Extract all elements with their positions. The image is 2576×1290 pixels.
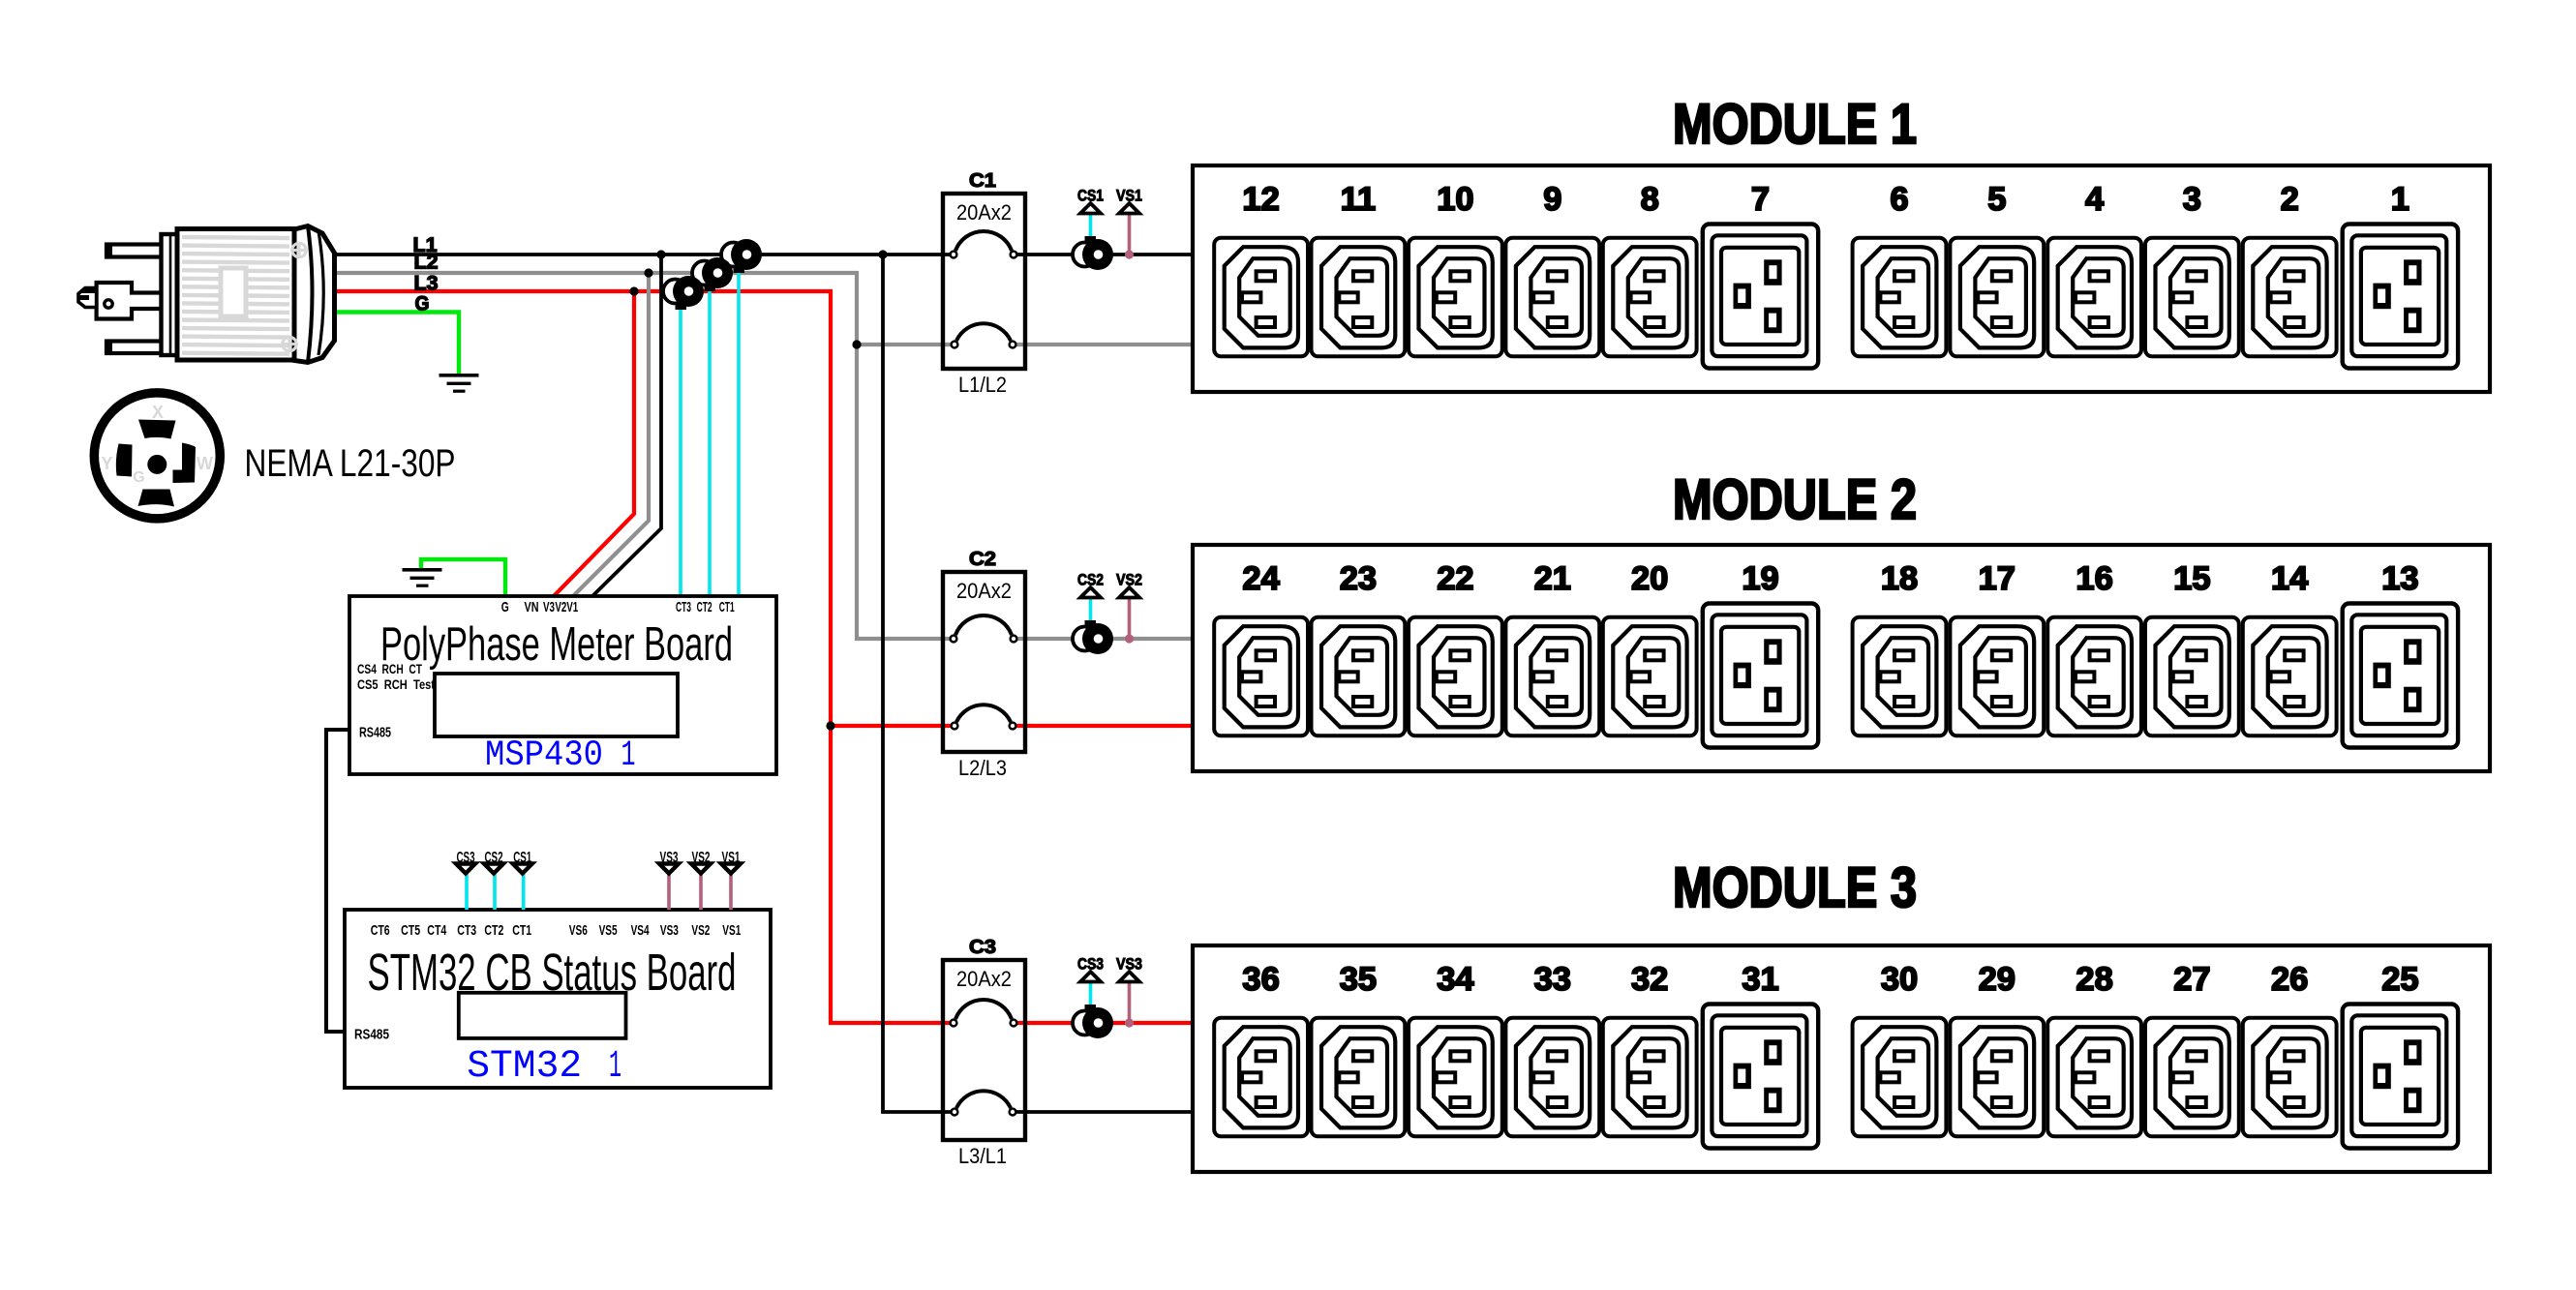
outlet 32 C13 (1603, 1018, 1697, 1137)
outlet 33 C13 (1505, 1018, 1599, 1137)
svg-text:24: 24 (1242, 560, 1279, 597)
CS2 triangle at STM32 (484, 864, 503, 874)
svg-text:10: 10 (1437, 181, 1473, 218)
outlet 16 C13 (2047, 617, 2141, 736)
svg-text:CT5: CT5 (401, 922, 420, 939)
svg-text:PolyPhase Meter Board: PolyPhase Meter Board (380, 618, 733, 671)
outlet 30 C13 (1853, 1018, 1947, 1137)
svg-text:26: 26 (2271, 961, 2308, 998)
svg-text:Y: Y (101, 454, 112, 473)
outlet 15 C13 (2145, 617, 2239, 736)
svg-text:RS485: RS485 (359, 725, 391, 741)
svg-text:CT3: CT3 (676, 599, 691, 615)
svg-text:C3: C3 (969, 936, 996, 958)
svg-text:20Ax2: 20Ax2 (956, 967, 1012, 991)
svg-text:CS1: CS1 (513, 850, 531, 866)
svg-text:VS3: VS3 (660, 850, 679, 866)
VS1 triangle at STM32 (721, 864, 741, 874)
VS1 tap (1128, 214, 1132, 255)
junction dot L1/module3 drop (878, 250, 887, 258)
svg-text:27: 27 (2173, 961, 2210, 998)
svg-text:CT2: CT2 (484, 922, 503, 939)
svg-text:35: 35 (1340, 961, 1377, 998)
svg-text:MODULE 2: MODULE 2 (1673, 468, 1917, 531)
svg-text:VS2: VS2 (692, 850, 711, 866)
svg-text:MODULE 1: MODULE 1 (1673, 93, 1917, 156)
CT1 toroid on L1 (721, 239, 762, 273)
outlet 31 C19 (1703, 1005, 1818, 1149)
svg-text:VS6: VS6 (569, 922, 588, 939)
VS3 tap (1128, 982, 1132, 1024)
svg-text:CS5 RCH Test: CS5 RCH Test (357, 676, 435, 692)
svg-text:L1/L2: L1/L2 (958, 373, 1007, 397)
breaker C3 bottom arc (956, 1091, 1011, 1108)
svg-text:34: 34 (1437, 961, 1473, 998)
svg-text:7: 7 (1751, 181, 1770, 218)
svg-text:CT4: CT4 (427, 922, 446, 939)
wire L2 gray from C2 to module 2 (1013, 637, 1193, 641)
svg-text:25: 25 (2381, 961, 2418, 998)
outlet 7 C19 (1703, 225, 1818, 369)
VS1 triangle (1119, 203, 1139, 214)
svg-text:G: G (415, 292, 430, 315)
VS3 triangle (1119, 972, 1139, 982)
plug NEMA L21-30P body (78, 234, 179, 355)
MODULE 2 box (1193, 545, 2490, 771)
breaker C2 box (943, 572, 1025, 752)
svg-text:CS3: CS3 (457, 850, 475, 866)
CS3 toroid sensor (1089, 982, 1093, 1008)
svg-text:3: 3 (2183, 181, 2201, 218)
outlet 12 C13 (1214, 238, 1308, 356)
svg-text:CT1: CT1 (719, 599, 735, 615)
svg-text:W: W (197, 454, 213, 473)
outlet 18 C13 (1853, 617, 1947, 736)
CS2 toroid sensor (1089, 598, 1093, 624)
svg-text:C1: C1 (969, 169, 996, 192)
svg-text:20Ax2: 20Ax2 (956, 579, 1012, 603)
svg-text:MODULE 3: MODULE 3 (1673, 856, 1917, 919)
outlet 11 C13 (1312, 238, 1406, 356)
svg-text:CT3: CT3 (457, 922, 476, 939)
svg-text:VS5: VS5 (599, 922, 618, 939)
svg-text:VS1: VS1 (1116, 187, 1142, 205)
breaker C1 top arc (955, 231, 1012, 251)
outlet 6 C13 (1853, 238, 1947, 356)
svg-text:31: 31 (1742, 961, 1778, 998)
outlet 20 C13 (1603, 617, 1697, 736)
svg-text:CT2: CT2 (697, 599, 712, 615)
svg-text:17: 17 (1979, 560, 2015, 597)
wire G green meter board ground (421, 559, 505, 596)
svg-text:1: 1 (2391, 181, 2409, 218)
svg-text:33: 33 (1534, 961, 1571, 998)
outlet 1 C19 (2343, 225, 2458, 369)
wire CT2 cyan to meter board (708, 290, 712, 596)
junction dot L3 at C2 feed (826, 721, 834, 730)
outlet 36 C13 (1214, 1018, 1308, 1137)
svg-text:32: 32 (1631, 961, 1668, 998)
svg-text:G: G (501, 599, 509, 615)
svg-text:STM32: STM32 (467, 1045, 582, 1089)
svg-text:RS485: RS485 (354, 1027, 389, 1043)
svg-text:NEMA L21-30P: NEMA L21-30P (245, 442, 456, 485)
breaker C2 top arc (955, 615, 1012, 635)
svg-text:36: 36 (1242, 961, 1279, 998)
outlet 22 C13 (1409, 617, 1502, 736)
outlet 23 C13 (1312, 617, 1406, 736)
junction dot L2/V2 (644, 268, 652, 277)
wire V2 gray sense drop to meter board (573, 273, 649, 596)
junction dot L2 at C1 feed (852, 340, 861, 348)
CS1 toroid sensor (1089, 214, 1093, 240)
breaker C1 bottom arc (956, 323, 1011, 341)
wire L1 black from plug to breaker C1 (334, 253, 954, 256)
meter board LCD rect (435, 674, 678, 736)
wire G green from plug to ground (334, 313, 459, 376)
breaker C3 top arc (955, 1000, 1012, 1019)
wire VS3 maroon into STM32 (667, 873, 671, 910)
breaker C3 box (943, 960, 1025, 1140)
NEMA L21-30P receptacle face (94, 393, 220, 519)
junction dot L3/V3 (629, 286, 638, 295)
outlet 10 C13 (1409, 238, 1502, 356)
outlet 14 C13 (2243, 617, 2337, 736)
CT2 toroid on L2 (692, 257, 733, 291)
wire L3 red from plug, down at x858 (334, 291, 954, 1023)
CS2 triangle (1080, 587, 1101, 598)
svg-text:16: 16 (2076, 560, 2112, 597)
svg-text:C2: C2 (969, 548, 996, 570)
wire CT1 cyan to meter board (737, 272, 741, 596)
svg-text:CT6: CT6 (371, 922, 390, 939)
outlet 17 C13 (1950, 617, 2044, 736)
svg-text:CS2: CS2 (1077, 571, 1104, 589)
outlet 34 C13 (1409, 1018, 1502, 1137)
svg-text:VS1: VS1 (722, 850, 741, 866)
STM32 CB Status Board box (345, 910, 771, 1088)
outlet 28 C13 (2047, 1018, 2141, 1137)
svg-text:29: 29 (1979, 961, 2015, 998)
wire VS2 maroon into STM32 (699, 873, 703, 910)
wire V1 black sense drop to meter board (592, 255, 661, 596)
outlet 21 C13 (1505, 617, 1599, 736)
outlet 13 C19 (2343, 604, 2458, 748)
svg-text:9: 9 (1543, 181, 1561, 218)
wire CS1 cyan into STM32 (522, 873, 526, 910)
svg-text:21: 21 (1534, 560, 1571, 597)
svg-text:4: 4 (2085, 181, 2104, 218)
svg-text:8: 8 (1641, 181, 1659, 218)
svg-text:VS2: VS2 (1116, 571, 1142, 589)
VS2 triangle at STM32 (691, 864, 711, 874)
svg-text:14: 14 (2271, 560, 2308, 597)
outlet 3 C13 (2145, 238, 2239, 356)
STM32 inner rect (459, 993, 626, 1038)
svg-text:CT1: CT1 (512, 922, 531, 939)
wire CS2 cyan into STM32 (493, 873, 497, 910)
svg-text:CS1: CS1 (1077, 187, 1104, 205)
outlet 29 C13 (1950, 1018, 2044, 1137)
svg-text:15: 15 (2173, 560, 2210, 597)
CT3 toroid on L3 (663, 276, 704, 310)
outlet 25 C19 (2343, 1005, 2458, 1149)
svg-text:13: 13 (2381, 560, 2418, 597)
CS1 triangle (1080, 203, 1101, 214)
svg-text:L3/L1: L3/L1 (958, 1144, 1007, 1168)
wire L3 red from C3 to module 3 (1014, 1021, 1193, 1025)
svg-text:CS2: CS2 (485, 850, 503, 866)
wire L2 gray C1 bottom feed (857, 343, 954, 346)
VS3 triangle at STM32 (659, 864, 679, 874)
svg-text:CS4 RCH CT: CS4 RCH CT (357, 661, 422, 676)
svg-text:12: 12 (1242, 181, 1279, 218)
outlet 27 C13 (2145, 1018, 2239, 1137)
svg-text:V2: V2 (555, 599, 566, 615)
VS2 triangle (1119, 587, 1139, 598)
PolyPhase Meter Board box (349, 596, 776, 774)
svg-text:L2: L2 (414, 252, 439, 274)
wire RS485 bus meter board to STM32 board (326, 730, 349, 1032)
svg-text:22: 22 (1437, 560, 1473, 597)
svg-text:V1: V1 (566, 599, 578, 615)
outlet 5 C13 (1950, 238, 2044, 356)
svg-text:2: 2 (2281, 181, 2299, 218)
svg-text:VS4: VS4 (631, 922, 650, 939)
svg-text:L3: L3 (414, 273, 439, 295)
svg-text:23: 23 (1340, 560, 1377, 597)
ground symbol main (439, 374, 479, 393)
svg-text:VN: VN (525, 599, 539, 615)
svg-text:30: 30 (1881, 961, 1918, 998)
svg-text:20Ax2: 20Ax2 (956, 200, 1012, 225)
outlet 8 C13 (1603, 238, 1697, 356)
outlet 35 C13 (1312, 1018, 1406, 1137)
svg-text:1: 1 (609, 1045, 621, 1089)
wire VS1 maroon into STM32 (729, 873, 733, 910)
outlet 9 C13 (1505, 238, 1599, 356)
CS3 triangle (1080, 972, 1101, 982)
wire CT3 cyan to meter board (679, 309, 682, 596)
wire L2 gray from plug, down at x885 (334, 273, 953, 639)
svg-text:28: 28 (2076, 961, 2112, 998)
svg-text:18: 18 (1881, 560, 1918, 597)
MODULE 1 box (1193, 165, 2490, 392)
wire L3 red from C2 to module 2 (1013, 724, 1193, 728)
outlet 26 C13 (2243, 1018, 2337, 1137)
svg-text:11: 11 (1341, 181, 1376, 218)
wire L1 black from C1 to module 1 (1014, 253, 1193, 256)
CS1 triangle at STM32 (513, 864, 532, 874)
svg-text:5: 5 (1987, 181, 2006, 218)
svg-text:20: 20 (1631, 560, 1668, 597)
svg-text:CS3: CS3 (1077, 955, 1104, 974)
breaker C1 box (943, 194, 1025, 369)
wire L2 gray return from C1 to module 1 (1014, 343, 1193, 346)
outlet 4 C13 (2047, 238, 2141, 356)
svg-text:VS1: VS1 (722, 922, 741, 939)
CS3 triangle at STM32 (456, 864, 475, 874)
svg-text:VS2: VS2 (691, 922, 710, 939)
svg-text:V3: V3 (543, 599, 555, 615)
wire L1 black from C3 to module 3 (1013, 1110, 1193, 1114)
junction dot L1/V1 (656, 250, 665, 258)
svg-text:X: X (152, 403, 164, 422)
ground symbol meter board (403, 568, 442, 587)
svg-text:VS3: VS3 (660, 922, 679, 939)
svg-text:6: 6 (1890, 181, 1908, 218)
svg-text:VS3: VS3 (1116, 955, 1142, 974)
svg-text:L2/L3: L2/L3 (958, 756, 1007, 780)
outlet 19 C19 (1703, 604, 1818, 748)
wire L3 red C2 bottom feed (831, 724, 954, 728)
svg-text:1: 1 (621, 735, 636, 776)
wire CS3 cyan into STM32 (465, 873, 469, 910)
MODULE 3 box (1193, 945, 2490, 1172)
VS2 tap (1128, 598, 1132, 640)
breaker C2 bottom arc (956, 705, 1011, 722)
svg-text:19: 19 (1742, 560, 1778, 597)
wire V3 red sense drop to meter board (554, 291, 634, 596)
outlet 2 C13 (2243, 238, 2337, 356)
outlet 24 C13 (1214, 617, 1308, 736)
svg-text:G: G (133, 469, 144, 486)
wire L1 black down at x912 to module 3 (883, 255, 954, 1112)
svg-text:MSP430: MSP430 (485, 735, 603, 776)
